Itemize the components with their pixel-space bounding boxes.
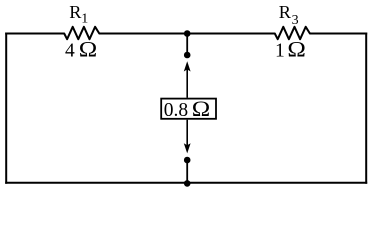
label R1 <box>69 2 88 27</box>
svg-text:Ω: Ω <box>287 37 305 62</box>
wire bottom <box>5 182 367 184</box>
wire middle branch upper <box>186 34 188 56</box>
wire left edge <box>5 33 7 184</box>
value 1 ohm label <box>275 37 306 62</box>
value 4 ohm label <box>65 37 97 62</box>
value 0.8 ohm label <box>164 97 210 122</box>
wire right edge <box>365 33 367 184</box>
wire top-right segment <box>310 33 367 35</box>
svg-text:Ω: Ω <box>79 37 97 62</box>
current arrow down <box>184 120 191 154</box>
junction dot upper branch <box>184 52 191 59</box>
resistor R3 <box>275 27 310 39</box>
label R3 <box>279 2 299 28</box>
svg-text:3: 3 <box>292 13 299 28</box>
wire top-left segment <box>5 33 64 35</box>
current arrow up <box>184 61 191 98</box>
svg-text:4: 4 <box>65 40 75 61</box>
svg-text:0.8: 0.8 <box>164 100 188 121</box>
resistor box 0.8 ohm <box>161 99 216 119</box>
resistor R1 <box>64 27 99 39</box>
wire middle branch lower <box>186 160 188 183</box>
svg-text:1: 1 <box>81 12 88 27</box>
svg-text:Ω: Ω <box>192 97 210 122</box>
junction dot bottom node <box>184 180 191 187</box>
junction dot lower branch <box>184 157 191 164</box>
svg-text:1: 1 <box>275 40 285 61</box>
junction dot top node <box>184 30 191 37</box>
wire top-middle segment <box>99 33 274 35</box>
svg-text:R: R <box>279 2 292 22</box>
